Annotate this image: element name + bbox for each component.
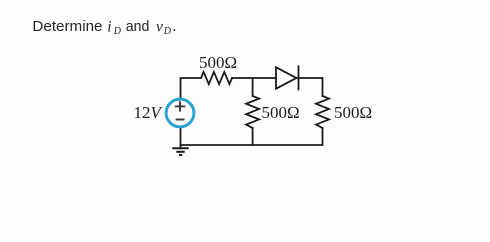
diode D1 triangle: [276, 67, 296, 88]
svg-text:500Ω: 500Ω: [262, 103, 300, 122]
wire middle resistor to bottom: [252, 128, 254, 145]
svg-text:D: D: [113, 26, 122, 37]
svg-text:v: v: [156, 18, 163, 35]
diode D1 cathode bar: [298, 66, 300, 89]
wire middle node vertical: [252, 78, 254, 96]
voltage source V1 circle: [166, 99, 194, 127]
svg-text:12V: 12V: [134, 103, 164, 122]
svg-text:i: i: [107, 18, 111, 35]
wire top middle segment: [232, 77, 276, 79]
resistor R1 500 ohm (top, horizontal): [201, 72, 232, 84]
plus sign of source: [175, 101, 185, 119]
wire top-left horizontal segment: [181, 78, 202, 98]
svg-text:Determine: Determine: [32, 18, 102, 35]
wire top-right segment: [299, 78, 323, 96]
svg-text:and: and: [126, 18, 150, 35]
wire diode to right node: [296, 77, 298, 79]
svg-text:500Ω: 500Ω: [199, 53, 237, 72]
svg-text:500Ω: 500Ω: [334, 103, 372, 122]
resistor R3 500 ohm (right, vertical): [316, 96, 329, 128]
svg-text:D: D: [163, 26, 172, 37]
wire source bottom lead: [180, 128, 182, 148]
resistor R2 500 ohm (middle, vertical): [246, 96, 259, 128]
svg-text:.: .: [172, 18, 176, 35]
ground: [172, 148, 188, 155]
wire right resistor to bottom: [181, 128, 323, 145]
title text: [32, 18, 176, 37]
minus sign of source: [176, 119, 185, 121]
